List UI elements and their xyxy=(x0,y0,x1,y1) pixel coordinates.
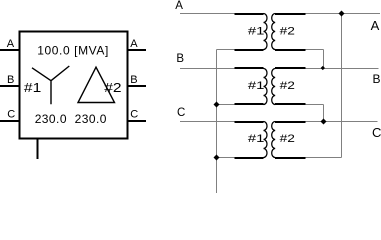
svg-text:C: C xyxy=(130,109,138,121)
svg-text:100.0 [MVA]: 100.0 [MVA] xyxy=(37,43,109,57)
svg-text:230.0: 230.0 xyxy=(75,112,107,126)
svg-text:A: A xyxy=(175,0,183,12)
svg-text:B: B xyxy=(130,74,137,86)
svg-text:C: C xyxy=(372,125,381,140)
svg-text:#1: #1 xyxy=(248,132,264,145)
svg-text:B: B xyxy=(176,53,184,65)
svg-text:C: C xyxy=(7,109,15,121)
svg-text:#1: #1 xyxy=(248,79,264,92)
svg-text:A: A xyxy=(130,38,138,50)
svg-text:B: B xyxy=(373,72,381,86)
svg-text:#1: #1 xyxy=(248,24,264,37)
svg-text:#2: #2 xyxy=(280,25,295,37)
svg-text:230.0: 230.0 xyxy=(35,112,67,126)
svg-text:C: C xyxy=(177,107,185,119)
svg-text:#1: #1 xyxy=(24,81,41,95)
svg-text:#2: #2 xyxy=(104,81,121,95)
svg-text:#2: #2 xyxy=(280,132,295,144)
svg-text:B: B xyxy=(7,74,14,86)
svg-text:#2: #2 xyxy=(280,79,295,91)
svg-text:A: A xyxy=(7,38,15,50)
svg-text:A: A xyxy=(371,18,380,33)
